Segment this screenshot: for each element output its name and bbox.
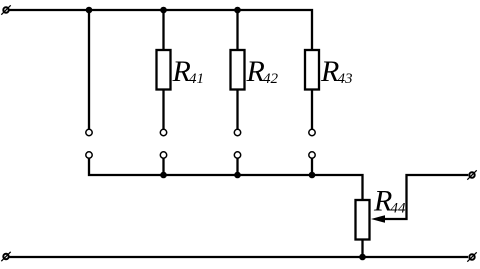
svg-text:R: R — [373, 185, 392, 218]
svg-text:43: 43 — [338, 71, 353, 87]
svg-text:R: R — [320, 55, 339, 88]
wire branch 2 lower — [162, 90, 164, 130]
wire stub 2 — [162, 158, 164, 175]
contact lower circle 1 — [86, 152, 92, 158]
wire branch 3 lower — [236, 90, 238, 130]
wire branch 2 upper — [162, 10, 164, 50]
wire branch 1 vertical — [88, 10, 90, 129]
terminal T3 right-top — [467, 170, 476, 179]
node bus dot 2 — [160, 172, 167, 179]
node junction dot 1 — [86, 7, 93, 14]
svg-text:42: 42 — [263, 71, 279, 87]
resistor R43 — [305, 50, 319, 90]
wire branch 3 upper — [236, 10, 238, 50]
node junction dot 2 — [160, 7, 167, 14]
terminal T4 right-bottom — [467, 252, 476, 261]
wire stub 3 — [236, 158, 238, 175]
contact lower circle 2 — [160, 152, 166, 158]
svg-text:R: R — [246, 55, 265, 88]
contact upper circle 3 — [234, 129, 240, 135]
label R42 — [246, 55, 279, 88]
contact upper circle 2 — [160, 129, 166, 135]
wire branch 4 lower — [311, 90, 313, 130]
label R43 — [320, 55, 353, 88]
contact lower circle 4 — [309, 152, 315, 158]
terminal T2 bottom-left — [1, 252, 10, 261]
node bottom dot — [359, 254, 366, 261]
node junction dot 3 — [234, 7, 241, 14]
wire stub 4 — [311, 158, 313, 175]
wire bus middle with stub 1 — [89, 158, 363, 200]
node bus dot 3 — [234, 172, 241, 179]
potentiometer R44 body — [356, 200, 370, 240]
svg-text:41: 41 — [189, 71, 204, 87]
label R41 — [172, 55, 205, 88]
wire top bus — [9, 10, 312, 50]
contact upper circle 4 — [309, 129, 315, 135]
wire R44 bottom lead — [361, 240, 363, 258]
contact lower circle 3 — [234, 152, 240, 158]
svg-text:44: 44 — [391, 201, 407, 217]
resistor R41 — [157, 50, 171, 90]
wire bottom bus — [9, 256, 468, 258]
label R44 — [373, 185, 406, 218]
wiper arrow of R44 — [371, 175, 468, 223]
resistor R42 — [231, 50, 245, 90]
terminal T1 top-left — [1, 5, 10, 14]
svg-text:R: R — [172, 55, 191, 88]
node bus dot 4 — [309, 172, 316, 179]
contact upper circle 1 — [86, 129, 92, 135]
